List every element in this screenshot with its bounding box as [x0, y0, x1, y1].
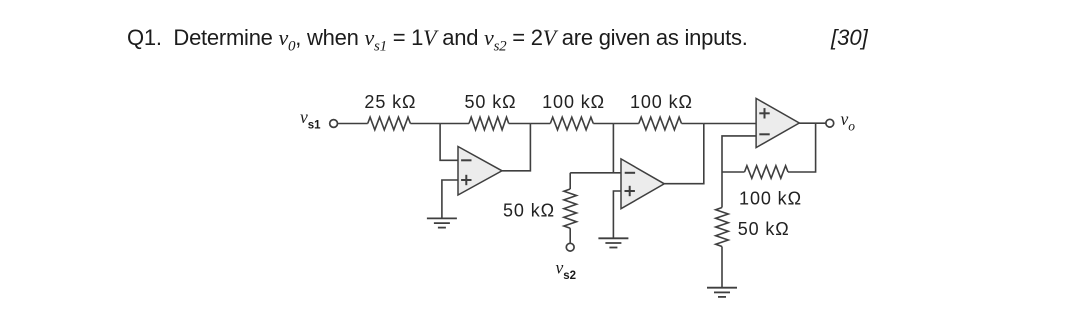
wire node C to R4 [613, 123, 638, 125]
svg-text:100 kΩ: 100 kΩ [630, 92, 693, 112]
wire feedback node to R6 [722, 171, 745, 173]
wire node B to R3 [530, 123, 550, 125]
ground G3 [707, 287, 737, 289]
wire feedback node to R7 [721, 172, 723, 208]
wire U2 noninverting input to ground [613, 191, 621, 238]
node A wire continue [440, 123, 469, 125]
wire vs1 to R1 [337, 123, 367, 125]
wire node C to U2 inverting input [612, 124, 614, 173]
svg-text:50 kΩ: 50 kΩ [465, 92, 517, 112]
resistor R7 50k to ground [716, 208, 729, 247]
svg-text:100 kΩ: 100 kΩ [739, 188, 802, 208]
svg-text:vo: vo [841, 109, 856, 134]
U2 plus sign [625, 190, 635, 192]
wire R1 to node A [410, 123, 440, 125]
node vo output terminal [826, 119, 834, 127]
node vs2 terminal [566, 243, 574, 251]
resistor R1 25k [368, 117, 411, 130]
wire vs2 branch to U2 inverting input [570, 172, 621, 174]
U1 plus sign [461, 179, 471, 181]
op-amp U2 [621, 159, 664, 209]
wire R7 to ground [721, 247, 723, 288]
U3 plus sign [759, 112, 769, 114]
wire resistor to vs2 terminal [569, 228, 571, 243]
op-amp U3 [756, 98, 799, 147]
wire node D to opamp3 plus input [704, 123, 756, 125]
op-amp U1 [458, 147, 502, 196]
wire R4 to node D [682, 123, 704, 125]
wire R6 to output vertical [788, 123, 816, 172]
wire R3 to node C [593, 123, 613, 125]
U1 minus sign [461, 159, 471, 161]
svg-text:25 kΩ: 25 kΩ [364, 92, 416, 112]
resistor R2 50k feedback opamp1 [469, 117, 509, 130]
wire R2 to node B [509, 123, 531, 125]
svg-text:50 kΩ: 50 kΩ [738, 219, 790, 239]
U2 minus sign [625, 172, 635, 174]
ground G1 [427, 217, 457, 219]
resistor R6 100k feedback opamp3 [745, 166, 789, 179]
wire vs2 resistor top [569, 173, 571, 189]
svg-text:vs2: vs2 [556, 258, 577, 282]
node vs1 input terminal [330, 120, 338, 128]
svg-text:100 kΩ: 100 kΩ [542, 92, 605, 112]
resistor R3 100k [550, 117, 593, 130]
wire node A to U1 inverting input [440, 124, 458, 161]
svg-text:50 kΩ: 50 kΩ [503, 200, 555, 220]
resistor R5 50k vs2 branch [564, 189, 577, 228]
ground G2 [598, 237, 628, 239]
resistor R4 100k feedback opamp2 [639, 117, 682, 130]
U3 minus sign [759, 133, 769, 135]
wire U1 noninverting input to ground [442, 180, 458, 218]
wire U1 output to node B [502, 124, 530, 171]
wire U3 output to vo terminal [799, 122, 826, 124]
wire U3 inverting input down to feedback node [722, 136, 756, 172]
svg-text:vs1: vs1 [300, 107, 321, 131]
wire U2 output to node D [664, 124, 704, 184]
